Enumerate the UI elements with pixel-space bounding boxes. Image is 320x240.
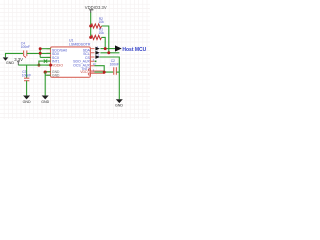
stub OCS_AUX bbox=[95, 61, 97, 63]
pin ring upper bbox=[88, 69, 90, 71]
junction dot R1 tap bbox=[89, 36, 92, 39]
wire C4 to SDX row bbox=[27, 52, 51, 54]
wire C3 to ground bbox=[26, 81, 28, 96]
wire CS drop to VDD net bbox=[100, 57, 120, 99]
svg-text:10k: 10k bbox=[99, 20, 105, 24]
pin numbers right side bbox=[93, 46, 100, 72]
ground symbol under C3 bbox=[23, 96, 30, 100]
pin stubs left bbox=[47, 49, 51, 75]
capacitor C3 bbox=[24, 78, 29, 81]
wire C3 drop bbox=[26, 65, 28, 78]
junction dot SDA pull-up bbox=[104, 47, 107, 50]
arrow out of CS bbox=[95, 55, 99, 59]
supply stub dark bbox=[90, 10, 92, 13]
grid background bbox=[0, 0, 150, 119]
no-connect X on INT1 wire bbox=[44, 59, 47, 62]
resistor R2 bbox=[91, 24, 102, 28]
svg-text:GND: GND bbox=[41, 100, 49, 104]
svg-text:100nF: 100nF bbox=[110, 63, 119, 67]
pin accent VDD upper bbox=[91, 70, 105, 72]
wire GND pin 1 bbox=[45, 71, 51, 73]
pin stubs right bbox=[90, 49, 94, 73]
wire SDA to host bbox=[100, 48, 115, 50]
svg-text:10k: 10k bbox=[99, 31, 105, 35]
svg-text:VDDIO3.3V: VDDIO3.3V bbox=[85, 5, 107, 10]
svg-text:VDDIO: VDDIO bbox=[52, 63, 63, 67]
svg-text:3: 3 bbox=[93, 59, 95, 62]
pin accent VDD lower bbox=[91, 73, 105, 75]
wire GND pin 2 bbox=[45, 74, 51, 76]
svg-text:3.3V: 3.3V bbox=[14, 57, 23, 62]
wire R2 to SCL column bbox=[102, 26, 109, 53]
wire INT2 drop bbox=[95, 66, 105, 72]
wire R1 to SDA column bbox=[102, 37, 106, 48]
wire supply column bbox=[90, 13, 92, 38]
svg-text:GND: GND bbox=[6, 61, 14, 65]
arrow out of SCL bbox=[95, 51, 99, 55]
resistor R1 bbox=[91, 35, 102, 39]
wire SDO/SA0 row bbox=[40, 48, 51, 50]
wire SCX row bbox=[40, 56, 51, 58]
svg-text:Host MCU: Host MCU bbox=[122, 47, 146, 53]
svg-text:GND: GND bbox=[23, 100, 31, 104]
wire INT1 row bbox=[39, 61, 51, 65]
junction dot R2 tap bbox=[89, 25, 92, 28]
pin ring lower bbox=[88, 73, 90, 75]
ground symbol right bbox=[116, 99, 123, 103]
arrow to Host MCU bbox=[115, 45, 122, 51]
junction dot SA0 tie bbox=[39, 47, 42, 50]
erc marker bbox=[24, 56, 26, 57]
junction dot on VDD wire bbox=[103, 71, 106, 74]
capacitor C2 bbox=[114, 67, 117, 75]
junction dot SDX tie bbox=[39, 52, 42, 55]
junction dot rail at VDDIO pin bbox=[49, 64, 52, 67]
wire IC ground column bbox=[44, 72, 46, 96]
wire tie column bbox=[39, 49, 41, 58]
capacitor C4 bbox=[24, 51, 27, 57]
wire 3.3V rail bbox=[18, 64, 50, 66]
wire SCL to host bbox=[100, 52, 119, 54]
supply symbol bar bbox=[89, 9, 93, 11]
svg-text:GND: GND bbox=[115, 103, 123, 107]
svg-text:VDD: VDD bbox=[80, 70, 88, 74]
svg-text:100nF: 100nF bbox=[22, 73, 31, 77]
wire VDD to C2 bbox=[95, 71, 114, 73]
wire C2 to ground bbox=[116, 71, 119, 73]
ground symbol under IC bbox=[42, 96, 49, 100]
junction dot SCL pull-up bbox=[107, 51, 110, 54]
svg-text:GND: GND bbox=[52, 73, 60, 77]
ground symbol left bbox=[3, 57, 9, 60]
IC U1 LSM6DSOTR body bbox=[51, 47, 91, 77]
wire C4 to left GND corner bbox=[6, 53, 24, 57]
junction dot INT1 to rail bbox=[37, 64, 40, 67]
junction dot GND pins bbox=[44, 71, 47, 74]
arrow out of SDA bbox=[95, 47, 99, 51]
svg-text:100nF: 100nF bbox=[21, 45, 30, 49]
svg-text:LSM6DSOTR: LSM6DSOTR bbox=[69, 42, 91, 46]
supply stub 3.3V bbox=[17, 62, 20, 65]
